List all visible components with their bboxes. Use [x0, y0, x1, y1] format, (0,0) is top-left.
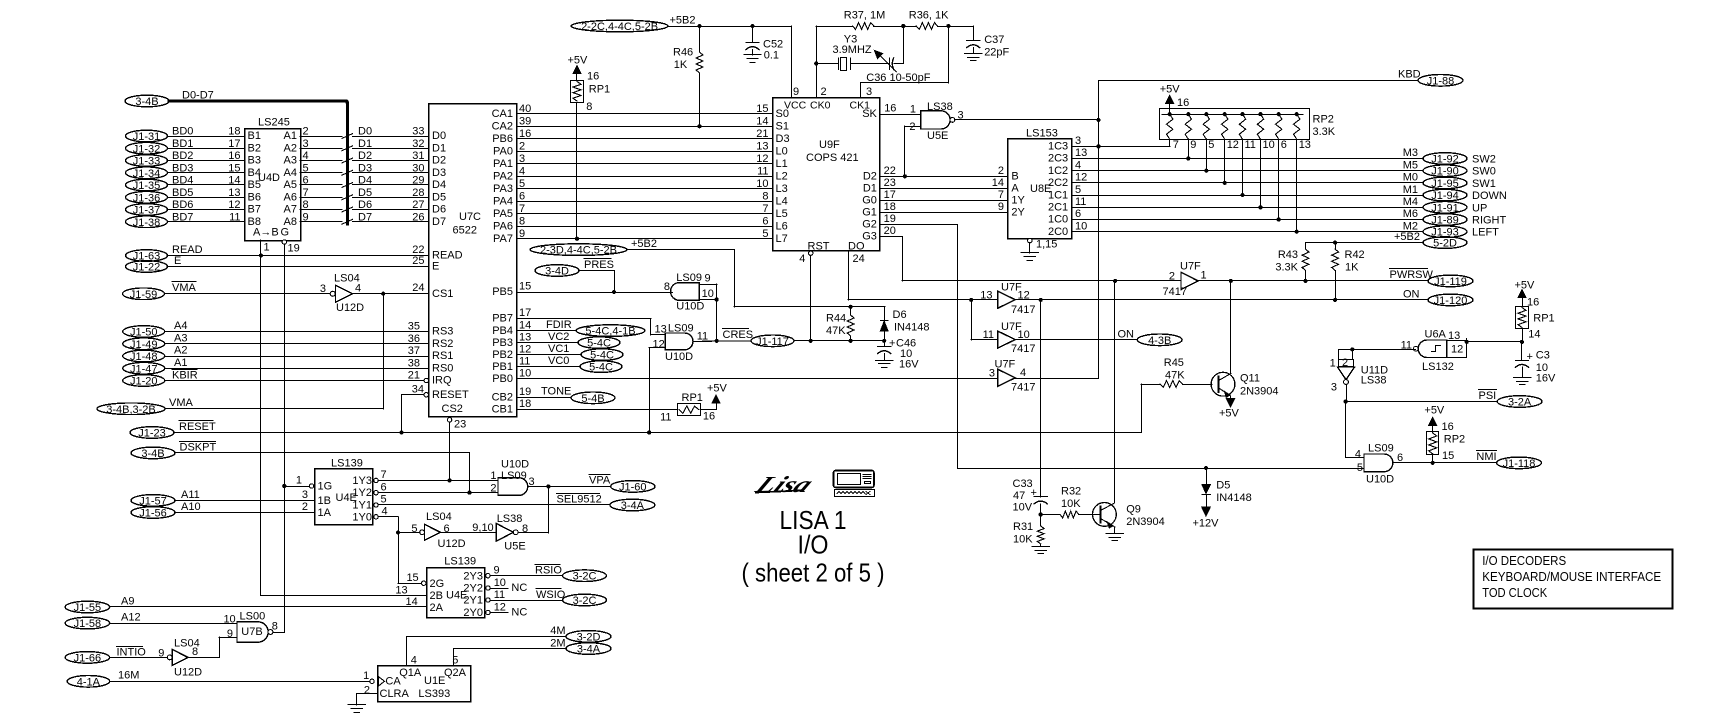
svg-text:CS2: CS2 — [442, 403, 463, 415]
svg-text:7: 7 — [381, 469, 387, 481]
svg-text:RS3: RS3 — [432, 326, 453, 338]
svg-text:2C0: 2C0 — [1048, 226, 1068, 238]
svg-text:+5V: +5V — [1515, 280, 1536, 292]
wire U5E out to KBD net — [955, 118, 1101, 122]
svg-text:16M: 16M — [118, 670, 139, 682]
svg-text:11: 11 — [697, 330, 708, 342]
wire ON to J1-120 — [1015, 288, 1473, 307]
svg-text:CK0: CK0 — [810, 100, 831, 112]
svg-text:+12V: +12V — [1193, 518, 1220, 530]
wire KBD net vertical — [1096, 80, 1100, 378]
resistor R44 47K — [826, 307, 854, 341]
svg-text:+5V: +5V — [1424, 404, 1445, 416]
svg-text:14: 14 — [1528, 329, 1540, 341]
svg-text:26: 26 — [412, 211, 424, 223]
svg-text:9: 9 — [1190, 139, 1196, 151]
svg-text:CLRA: CLRA — [380, 688, 410, 700]
svg-text:PA1: PA1 — [493, 158, 513, 170]
svg-text:LS09: LS09 — [501, 470, 527, 482]
wire G net (LS245 pin19 / U7B out / 1G) — [282, 244, 309, 631]
svg-text:D5: D5 — [432, 191, 446, 203]
svg-text:1: 1 — [1201, 270, 1207, 282]
svg-text:12: 12 — [228, 199, 240, 211]
svg-text:Q9: Q9 — [1126, 504, 1141, 516]
svg-text:B1: B1 — [248, 130, 261, 142]
svg-text:8: 8 — [519, 215, 525, 227]
svg-text:1Y1: 1Y1 — [352, 500, 372, 512]
svg-text:U12D: U12D — [438, 538, 466, 550]
wire 2Y3 RSIO — [490, 564, 606, 582]
wire ON net vertical to C33 — [1040, 300, 1042, 497]
svg-text:12: 12 — [1227, 139, 1239, 151]
svg-text:10: 10 — [702, 288, 714, 300]
svg-text:24: 24 — [853, 253, 865, 265]
svg-text:11: 11 — [757, 165, 768, 177]
svg-text:1C3: 1C3 — [1048, 141, 1068, 153]
svg-text:22pF: 22pF — [984, 47, 1009, 59]
svg-text:21: 21 — [756, 128, 768, 140]
svg-text:DSKPT: DSKPT — [180, 442, 217, 454]
node J1-35 (BD4) — [126, 175, 245, 193]
wire 1Y2 / DSKPT net to U10D pin2 — [378, 491, 498, 495]
svg-text:A1: A1 — [174, 357, 187, 369]
node 3-4B DSKPT — [131, 442, 470, 493]
svg-text:B7: B7 — [248, 204, 261, 216]
wire U7F#4 out to KBD vertical — [1015, 378, 1099, 380]
svg-text:A3: A3 — [284, 155, 297, 167]
wire PB5 / PRES net — [517, 281, 673, 294]
svg-text:9: 9 — [303, 211, 309, 223]
svg-text:U9F: U9F — [819, 139, 840, 151]
buffer U7F 7417 (ON to 4-3B) — [983, 321, 1036, 355]
svg-text:1: 1 — [910, 104, 916, 116]
svg-text:INTIO: INTIO — [117, 646, 147, 658]
svg-text:10: 10 — [756, 178, 768, 190]
capacitor C3 10 16V — [1514, 342, 1556, 385]
svg-text:SK: SK — [862, 108, 877, 120]
svg-text:10: 10 — [1075, 220, 1087, 232]
node J1-22 E — [126, 255, 429, 274]
svg-text:3-4D: 3-4D — [545, 266, 569, 278]
svg-text:B3: B3 — [248, 155, 261, 167]
svg-text:1: 1 — [264, 242, 270, 254]
svg-text:25: 25 — [412, 255, 424, 267]
svg-text:SEL9512: SEL9512 — [557, 494, 602, 506]
svg-text:3: 3 — [1075, 135, 1081, 147]
svg-text:KBD: KBD — [1398, 69, 1421, 81]
svg-text:D4: D4 — [358, 175, 372, 187]
svg-text:CA2: CA2 — [492, 120, 513, 132]
svg-text:+5V: +5V — [1160, 84, 1181, 96]
svg-text:18: 18 — [884, 201, 896, 213]
svg-text:R46: R46 — [673, 47, 693, 59]
svg-text:M1: M1 — [1403, 184, 1418, 196]
svg-text:5-4B: 5-4B — [581, 393, 604, 405]
svg-text:U4D: U4D — [258, 172, 280, 184]
inverter U12D LS04 (INTIO) — [158, 637, 237, 678]
svg-text:M3: M3 — [1403, 147, 1418, 159]
svg-text:15: 15 — [406, 572, 418, 584]
svg-text:2G: 2G — [430, 578, 445, 590]
svg-text:PB6: PB6 — [492, 133, 513, 145]
svg-text:RS1: RS1 — [432, 350, 453, 362]
svg-text:VC2: VC2 — [548, 331, 569, 343]
svg-text:2: 2 — [303, 126, 309, 138]
svg-text:NMI: NMI — [1476, 451, 1496, 463]
Lisa computer icon — [834, 471, 875, 497]
svg-text:8: 8 — [272, 621, 278, 633]
svg-text:6: 6 — [519, 190, 525, 202]
svg-text:6: 6 — [381, 481, 387, 493]
svg-text:VPA: VPA — [589, 475, 611, 487]
svg-text:40: 40 — [519, 103, 531, 115]
svg-text:J1-32: J1-32 — [133, 143, 161, 155]
wire D1 to LS153 A — [879, 177, 1007, 189]
svg-text:J1-92: J1-92 — [1431, 154, 1459, 166]
svg-text:18: 18 — [228, 126, 240, 138]
wire 1C1 / M1 to J1-94 (DOWN) — [1072, 184, 1507, 202]
svg-text:ON: ON — [1118, 328, 1135, 340]
svg-text:A4: A4 — [284, 167, 297, 179]
svg-text:11: 11 — [1245, 139, 1256, 151]
resistor R45 47K — [1141, 357, 1212, 387]
svg-text:B4: B4 — [248, 167, 261, 179]
svg-text:13: 13 — [1299, 139, 1311, 151]
svg-text:RP1: RP1 — [589, 84, 610, 96]
wire 1Y1 SEL9512 net — [378, 494, 655, 513]
svg-text:D3: D3 — [432, 167, 446, 179]
node +5B2 (2-3D,4-4C,5-2B) — [530, 238, 885, 309]
svg-text:13: 13 — [980, 289, 992, 301]
svg-text:RP2: RP2 — [1444, 434, 1465, 446]
svg-text:1A: 1A — [318, 507, 332, 519]
node J1-49 (A3) — [123, 332, 429, 351]
wire 4M to 3-2D — [407, 625, 612, 666]
svg-text:D2: D2 — [432, 155, 446, 167]
svg-text:R32: R32 — [1061, 486, 1081, 498]
svg-text:ON: ON — [1403, 288, 1420, 300]
node J1-34 (BD3) — [126, 162, 245, 180]
title block box — [1474, 550, 1673, 609]
svg-text:38: 38 — [408, 357, 420, 369]
svg-text:D1: D1 — [358, 138, 372, 150]
svg-text:13: 13 — [395, 585, 407, 597]
svg-text:4M: 4M — [550, 625, 565, 637]
wire U6A pin11 to U11D inputs — [1338, 347, 1415, 359]
svg-text:PB0: PB0 — [492, 373, 513, 385]
svg-text:1: 1 — [490, 470, 496, 482]
wire PA6 to U9F L6 — [517, 215, 772, 227]
svg-text:J1-60: J1-60 — [619, 481, 647, 493]
svg-text:47K: 47K — [826, 325, 846, 337]
node 5-2D +5B2 — [1306, 231, 1468, 249]
svg-text:14: 14 — [519, 319, 531, 331]
svg-text:LS09: LS09 — [676, 272, 702, 284]
svg-text:3: 3 — [519, 153, 525, 165]
resistor R42 1K — [1332, 243, 1365, 302]
multiplexer U8E LS153 — [1008, 128, 1072, 239]
buffer U7F 7417 (G3 to PWRSW) — [1163, 260, 1207, 298]
buffer U7F 7417 (DO to ON) — [980, 282, 1035, 316]
svg-text:9: 9 — [705, 273, 711, 285]
svg-text:RS0: RS0 — [432, 362, 453, 374]
svg-text:4-3B: 4-3B — [1148, 335, 1171, 347]
svg-text:U5E: U5E — [927, 130, 948, 142]
svg-text:J1-23: J1-23 — [138, 428, 166, 440]
svg-text:10V: 10V — [1013, 502, 1033, 514]
svg-text:10: 10 — [519, 368, 531, 380]
svg-text:A2: A2 — [174, 345, 187, 357]
nand U5E LS38 (SK/KBD) — [879, 101, 963, 178]
svg-text:VMA: VMA — [169, 397, 194, 409]
wire RESET line up to R45 — [1141, 384, 1143, 433]
svg-text:2: 2 — [1169, 270, 1175, 282]
svg-text:2C3: 2C3 — [1048, 153, 1068, 165]
wire VC1 to 5-4C — [517, 343, 623, 362]
svg-text:6: 6 — [444, 523, 450, 535]
resistor RP1 (CB1 pullup) — [517, 382, 728, 423]
ground at U1E CLRA — [348, 694, 378, 713]
svg-text:5-4C: 5-4C — [590, 350, 614, 362]
svg-text:9: 9 — [158, 648, 164, 660]
svg-text:8: 8 — [664, 281, 670, 293]
node J1-33 (BD2) — [126, 150, 245, 168]
node J1-55 A9 — [65, 595, 426, 614]
svg-text:NC: NC — [511, 607, 527, 619]
svg-text:3-2D: 3-2D — [577, 631, 601, 643]
wire D6 (LS245 A7 to U7C) — [300, 199, 429, 212]
svg-text:19: 19 — [884, 213, 896, 225]
svg-text:1K: 1K — [674, 59, 688, 71]
node J1-59 VMA — [123, 282, 331, 301]
svg-text:IN4148: IN4148 — [1216, 492, 1251, 504]
svg-text:L7: L7 — [776, 233, 788, 245]
svg-text:11: 11 — [983, 329, 994, 341]
svg-text:R36, 1K: R36, 1K — [909, 10, 949, 22]
svg-text:0.1: 0.1 — [764, 50, 779, 62]
wire D2 to LS153 B — [879, 165, 1007, 177]
wire 2Y1 WSIO — [490, 589, 606, 608]
svg-text:3: 3 — [866, 86, 872, 98]
svg-text:VC0: VC0 — [548, 355, 569, 367]
svg-text:BD0: BD0 — [172, 126, 193, 138]
svg-text:2Y2: 2Y2 — [463, 583, 483, 595]
svg-text:7417: 7417 — [1163, 286, 1187, 298]
wire ON to 4-3B oval — [1015, 328, 1182, 347]
svg-text:J1-38: J1-38 — [133, 217, 161, 229]
wire PA5 to U9F L5 — [517, 203, 772, 215]
svg-text:1C2: 1C2 — [1048, 165, 1068, 177]
svg-text:U10D: U10D — [676, 300, 704, 312]
node J1-63 READ — [126, 244, 429, 263]
wire 2C0 / M2 to J1-93 (LEFT) — [1072, 220, 1499, 238]
svg-text:7: 7 — [998, 189, 1004, 201]
wire G0 to LS153 1Y — [879, 189, 1007, 201]
inverter U12D LS04 (1Y0) — [411, 511, 496, 550]
svg-text:37: 37 — [408, 345, 420, 357]
svg-text:13: 13 — [1075, 147, 1087, 159]
svg-text:D2: D2 — [863, 171, 877, 183]
svg-text:J1-55: J1-55 — [74, 602, 102, 614]
svg-text:8: 8 — [303, 199, 309, 211]
svg-text:+5V: +5V — [568, 55, 589, 67]
svg-text:U12D: U12D — [336, 302, 364, 314]
svg-text:SW0: SW0 — [1472, 166, 1496, 178]
svg-text:PA4: PA4 — [493, 195, 513, 207]
svg-text:LEFT: LEFT — [1472, 227, 1499, 239]
svg-text:D0: D0 — [358, 126, 372, 138]
svg-text:17: 17 — [228, 138, 240, 150]
svg-text:A12: A12 — [121, 611, 141, 623]
svg-text:2: 2 — [519, 140, 525, 152]
wire CRES net — [693, 329, 884, 348]
svg-text:RP2: RP2 — [1313, 114, 1334, 126]
svg-text:U10D: U10D — [501, 458, 529, 470]
svg-text:SW2: SW2 — [1472, 154, 1496, 166]
svg-text:29: 29 — [412, 175, 424, 187]
svg-text:J1-56: J1-56 — [139, 508, 167, 520]
svg-text:10: 10 — [223, 614, 235, 626]
svg-text:J1-88: J1-88 — [1427, 75, 1455, 87]
svg-text:1: 1 — [1330, 357, 1336, 369]
wire TONE to 5-4B — [517, 386, 615, 405]
svg-text:UP: UP — [1472, 202, 1487, 214]
svg-text:12: 12 — [494, 601, 506, 613]
node J1-57 A11 — [131, 489, 315, 507]
svg-text:A6: A6 — [284, 191, 297, 203]
resistor R32 10K — [1041, 486, 1101, 518]
svg-text:33: 33 — [412, 126, 424, 138]
wire PSI net — [1344, 384, 1542, 408]
svg-text:+5B2: +5B2 — [1394, 231, 1420, 243]
svg-text:23: 23 — [884, 177, 896, 189]
wire NMI net — [1393, 451, 1542, 470]
svg-text:3-4A: 3-4A — [577, 644, 601, 656]
buffer U7F 7417 (PB0) — [989, 358, 1036, 393]
svg-text:3-4B: 3-4B — [141, 448, 164, 460]
wire U11D out to NMI gate pin4 — [1346, 402, 1365, 458]
nand U7B LS00 — [223, 610, 284, 642]
svg-text:3-2A: 3-2A — [1508, 397, 1532, 409]
wire 2Y0 NC — [490, 601, 527, 618]
svg-text:C37: C37 — [984, 34, 1004, 46]
ground at LS153 pins 1,15 — [1021, 238, 1057, 260]
svg-text:A9: A9 — [121, 595, 134, 607]
svg-text:5: 5 — [519, 178, 525, 190]
svg-text:J1-37: J1-37 — [133, 205, 161, 217]
svg-text:I/O DECODERS: I/O DECODERS — [1482, 554, 1566, 568]
svg-text:J1-47: J1-47 — [130, 363, 158, 375]
wire G3 to U7F pin2 — [879, 225, 1181, 281]
svg-text:NC: NC — [511, 582, 527, 594]
wire PWRSW net — [1113, 279, 1428, 283]
svg-text:S1: S1 — [776, 120, 789, 132]
wire VC0 to 5-4C — [517, 355, 622, 374]
wire VC2 to 5-4C — [517, 331, 620, 350]
svg-text:U7B: U7B — [241, 626, 262, 638]
svg-text:B5: B5 — [248, 179, 261, 191]
svg-text:A→B: A→B — [253, 227, 279, 239]
svg-text:A8: A8 — [284, 216, 297, 228]
wire 1Y0 net to U12D#5 and 2G — [378, 517, 421, 584]
svg-text:1Y3: 1Y3 — [352, 475, 372, 487]
svg-text:6: 6 — [1281, 139, 1287, 151]
svg-text:7417: 7417 — [1011, 304, 1035, 316]
Lisa script logo — [749, 473, 818, 498]
VIA U7C 6522 — [424, 104, 516, 417]
svg-text:5-4C,4-1B: 5-4C,4-1B — [585, 326, 635, 338]
svg-text:4: 4 — [519, 165, 525, 177]
svg-text:1B: 1B — [318, 495, 331, 507]
and-gate U10D LS09 (CRES to PRES) mirrored — [664, 272, 719, 341]
svg-text:17: 17 — [519, 307, 531, 319]
svg-text:14: 14 — [228, 175, 240, 187]
svg-text:1Y0: 1Y0 — [352, 511, 372, 523]
svg-text:6: 6 — [303, 175, 309, 187]
svg-text:U10D: U10D — [1366, 474, 1394, 486]
svg-text:U5E: U5E — [504, 541, 525, 553]
wire PB6 to U9F D3 — [517, 128, 772, 140]
svg-text:PB2: PB2 — [492, 349, 513, 361]
svg-text:27: 27 — [412, 199, 424, 211]
svg-text:D7: D7 — [432, 216, 446, 228]
svg-text:A1: A1 — [284, 130, 297, 142]
node J1-119 PWRSW — [1390, 269, 1474, 288]
and-gate U10D LS09 (VPA) — [490, 458, 534, 495]
svg-text:16: 16 — [884, 103, 896, 115]
wire G2 to NMI gate — [879, 213, 1364, 470]
svg-text:SW1: SW1 — [1472, 178, 1496, 190]
wire PA0 to U9F L0 — [517, 140, 772, 152]
wire FDIR to 5-4C,4-1B — [517, 319, 645, 338]
svg-text:5-2D: 5-2D — [1433, 238, 1457, 250]
svg-text:R31: R31 — [1013, 521, 1033, 533]
svg-text:3-4B,3-2B: 3-4B,3-2B — [106, 404, 156, 416]
svg-text:M4: M4 — [1403, 196, 1418, 208]
wire U7F pin11 branch — [971, 300, 997, 340]
crystal Y3 3.9MHZ — [816, 34, 889, 71]
svg-text:D6: D6 — [432, 204, 446, 216]
svg-text:CS1: CS1 — [432, 288, 453, 300]
svg-text:A2: A2 — [284, 142, 297, 154]
wire CA1 to U9F S0 — [517, 103, 772, 115]
svg-text:3-2C: 3-2C — [573, 595, 597, 607]
node J1-66 INTIO — [65, 646, 167, 664]
svg-text:12: 12 — [1075, 172, 1087, 184]
svg-text:J1-66: J1-66 — [74, 652, 102, 664]
svg-text:16: 16 — [1442, 421, 1454, 433]
svg-text:A: A — [1011, 183, 1019, 195]
svg-text:16: 16 — [703, 410, 715, 422]
svg-text:U10D: U10D — [665, 351, 693, 363]
wire D5 (LS245 A6 to U7C) — [300, 187, 429, 200]
svg-text:4: 4 — [1020, 367, 1026, 379]
svg-text:47: 47 — [1013, 490, 1025, 502]
svg-text:1: 1 — [296, 475, 302, 487]
svg-text:J1-57: J1-57 — [139, 495, 167, 507]
svg-text:VC1: VC1 — [548, 343, 569, 355]
svg-text:PB4: PB4 — [492, 325, 513, 337]
wire D1 (LS245 A2 to U7C) — [300, 138, 429, 151]
svg-text:31: 31 — [412, 150, 424, 162]
resistor R31 10K — [1013, 515, 1049, 554]
svg-text:RP1: RP1 — [1533, 313, 1554, 325]
svg-text:DOWN: DOWN — [1472, 190, 1507, 202]
svg-text:3: 3 — [1331, 381, 1337, 393]
svg-text:4: 4 — [382, 505, 388, 517]
svg-text:9: 9 — [998, 201, 1004, 213]
svg-text:17: 17 — [884, 189, 896, 201]
